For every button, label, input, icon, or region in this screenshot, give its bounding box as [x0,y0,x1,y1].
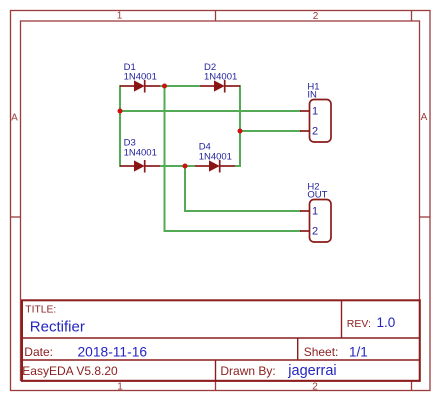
diode D2 [200,80,240,93]
wire right vertical [239,85,241,167]
svg-text:2018-11-16: 2018-11-16 [78,344,148,359]
junction node dot (120,111) [118,109,123,114]
svg-text:2: 2 [312,226,318,238]
svg-text:2: 2 [313,11,319,22]
junction node dot (240,131) [238,129,243,134]
svg-text:jagerrai: jagerrai [287,363,336,379]
diode D3 [120,160,160,173]
connector H2 [300,200,331,243]
svg-text:A: A [11,113,18,124]
svg-text:IN: IN [307,90,317,101]
title block [22,300,420,381]
wire inner vertical to H2 pin 2 [165,86,302,231]
diode D1 [120,80,160,93]
svg-text:Sheet:: Sheet: [304,345,339,359]
svg-text:1N4001: 1N4001 [124,72,157,83]
wire left vertical [119,85,121,167]
svg-text:EasyEDA V5.8.20: EasyEDA V5.8.20 [22,364,118,378]
wire top rail [160,85,200,87]
label D1 [124,62,157,83]
svg-text:Rectifier: Rectifier [30,319,85,336]
svg-text:1: 1 [117,11,123,22]
svg-text:2: 2 [312,126,318,138]
svg-text:OUT: OUT [307,190,327,201]
diode D4 [195,160,235,173]
wire middle rail to H1 pin 1 [120,110,301,112]
svg-text:1N4001: 1N4001 [204,72,237,83]
junction node dot (185,166) [183,164,188,169]
svg-text:1/1: 1/1 [349,344,368,359]
svg-text:REV:: REV: [347,318,371,330]
label D4 [199,142,232,163]
label D2 [204,62,237,83]
label D3 [124,138,157,159]
svg-text:Drawn By:: Drawn By: [220,364,275,378]
svg-text:Date:: Date: [24,345,53,359]
label H1 [307,82,319,101]
svg-text:1: 1 [312,106,318,118]
svg-text:1: 1 [312,206,318,218]
svg-text:A: A [421,112,428,123]
junction node dot (165,86) [162,84,167,89]
svg-text:2: 2 [312,382,318,393]
svg-text:1N4001: 1N4001 [124,148,157,159]
svg-text:1.0: 1.0 [377,315,396,330]
wire to H1 pin 2 [240,130,301,132]
svg-text:TITLE:: TITLE: [25,305,56,316]
wire bottom rail segment D3-D4 [160,165,240,167]
label H2 [307,182,327,201]
wire inner vertical to H2 pin 1 [185,166,301,211]
svg-text:1: 1 [117,382,123,393]
connector H1 [300,100,331,143]
svg-text:1N4001: 1N4001 [199,152,232,163]
